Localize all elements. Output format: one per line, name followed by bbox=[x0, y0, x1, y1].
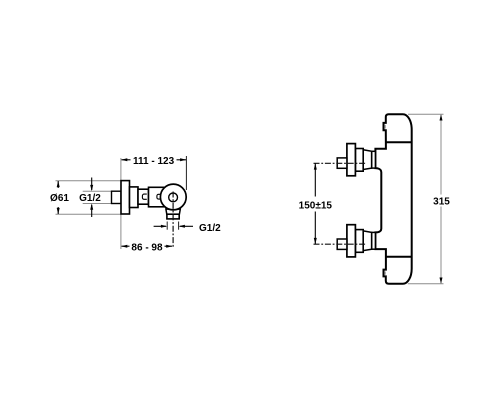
bottom connector group bbox=[337, 225, 375, 257]
outlet neck bbox=[166, 209, 180, 214]
wire Ø61 extension top bbox=[56, 180, 122, 182]
wire G1/2 inlet extension bottom bbox=[83, 203, 112, 205]
node neck detail bbox=[142, 194, 146, 199]
svg-text:86 - 98: 86 - 98 bbox=[131, 243, 163, 254]
wire bottom cap separator bbox=[386, 256, 412, 258]
svg-text:315: 315 bbox=[433, 197, 450, 208]
node bottom nipple G1/2 bbox=[337, 239, 347, 249]
node top notch mark bbox=[384, 125, 386, 129]
wire outlet G1/2 extension left bbox=[166, 222, 168, 230]
node outlet G1/2 arrow right bbox=[179, 225, 193, 228]
node bottom flange bbox=[347, 225, 356, 257]
node dim 111-123 line and arrows bbox=[121, 158, 186, 161]
wire dim 315 extension top bbox=[408, 113, 444, 115]
body mixer silhouette bbox=[375, 114, 411, 284]
wire inlet centerline top bbox=[314, 162, 367, 164]
svg-text:150±15: 150±15 bbox=[299, 201, 333, 212]
wire wall reference line bbox=[120, 158, 122, 249]
wire top cap separator bbox=[386, 141, 412, 143]
node bottom taper piece bbox=[363, 231, 371, 251]
svg-text:Ø61: Ø61 bbox=[50, 193, 69, 204]
wire dim 315 extension bottom bbox=[408, 283, 444, 285]
pipe G1/2 wall connection bbox=[112, 191, 122, 203]
svg-text:G1/2: G1/2 bbox=[79, 193, 101, 204]
wire G1/2 inlet extension top bbox=[83, 190, 112, 192]
wire Ø61 extension bottom bbox=[56, 213, 122, 215]
node Ø61 arrow up bbox=[57, 181, 60, 188]
step escutcheon cover bbox=[130, 187, 139, 208]
node top nipple G1/2 bbox=[337, 158, 347, 168]
neck section bbox=[138, 189, 149, 204]
knob inner circle bbox=[169, 193, 178, 202]
node dim 150±15 line and arrows bbox=[314, 163, 317, 244]
node top taper piece bbox=[363, 150, 371, 170]
node dim 315 line and arrows bbox=[440, 114, 443, 284]
wire inlet centerline bottom bbox=[314, 243, 367, 245]
node dim 86-98 line and arrows bbox=[121, 245, 173, 248]
wire outlet centerline dashed bbox=[172, 192, 174, 248]
node top flange bbox=[347, 144, 356, 176]
svg-text:G1/2: G1/2 bbox=[199, 223, 221, 234]
node G1/2 inlet arrow top bbox=[90, 178, 93, 192]
node Ø61 arrow down bbox=[57, 207, 60, 214]
flange Ø61 escutcheon bbox=[121, 181, 130, 214]
node top union nut bbox=[372, 151, 376, 168]
node G1/2 inlet arrow bottom bbox=[90, 204, 93, 218]
svg-text:111 - 123: 111 - 123 bbox=[133, 156, 175, 167]
aerator outlet ring bbox=[167, 214, 179, 219]
node outlet G1/2 arrow left bbox=[154, 225, 168, 228]
body block bbox=[149, 187, 167, 207]
wire outlet G1/2 extension right bbox=[178, 222, 180, 230]
node body detail bbox=[157, 194, 161, 199]
node top step piece bbox=[355, 149, 363, 172]
top connector group bbox=[337, 144, 375, 176]
node bottom step piece bbox=[355, 230, 363, 253]
node bottom notch mark bbox=[384, 272, 386, 275]
wire dim 111-123 extension right bbox=[185, 156, 187, 190]
node bottom union nut bbox=[372, 232, 376, 249]
knob circle bbox=[160, 184, 186, 210]
